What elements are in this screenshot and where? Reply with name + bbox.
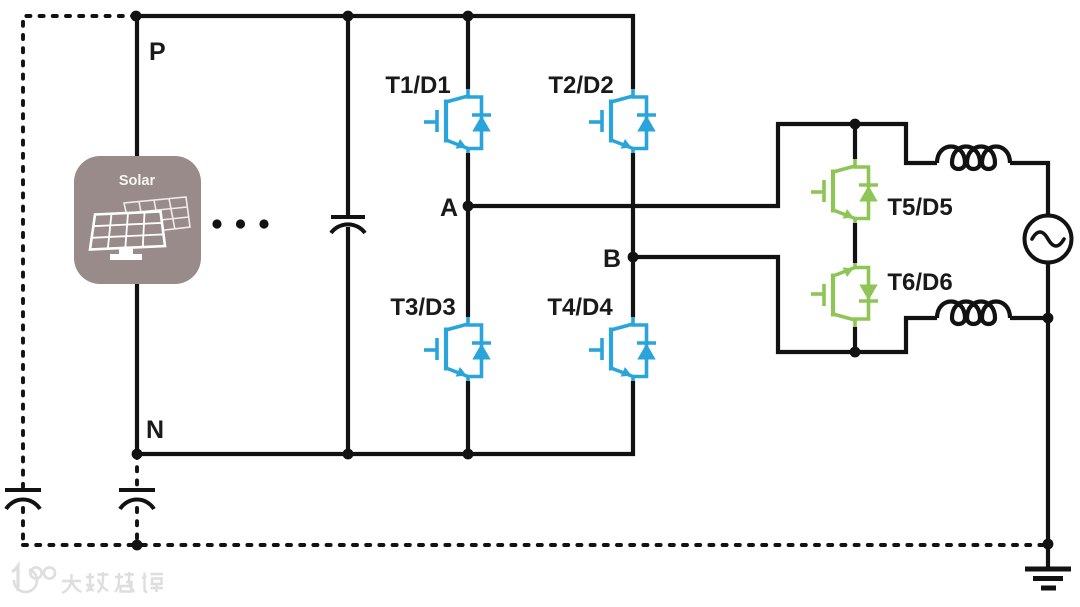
inductor L1 [937,147,1010,170]
ellipsis dots PV string [212,219,221,228]
dashed lead N node to parasitic capacitor [135,454,139,487]
watermark logo [12,566,55,592]
svg-text:N: N [146,416,164,444]
front panel [90,212,165,250]
svg-text:T3/D3: T3/D3 [390,294,455,321]
transistor T4 / diode D4 [589,317,656,381]
inductor L2 [937,302,1010,325]
wire: left bridge leg T1 to A to T3 [466,153,470,317]
junction bottom rail / T3 leg [463,449,474,460]
svg-text:Solar: Solar [119,173,156,189]
svg-text:T5/D5: T5/D5 [887,194,952,221]
svg-text:P: P [149,38,166,66]
watermark text 大数跨境 [62,572,163,593]
transistor T6 / diode D6 (mirrored) [811,263,878,327]
svg-text:T6/D6: T6/D6 [887,269,952,296]
junction top rail / T1 leg [463,11,474,22]
dashed segment below left parasitic capacitor [21,508,25,545]
wire: DC-link capacitor leg lower [346,227,350,454]
capacitor CY1 curved plate [6,500,40,509]
node A junction [463,201,474,212]
wire: DC-link capacitor leg upper [346,16,350,216]
wire: left bridge leg above T1 [466,16,470,89]
capacitor C1 DC-link flat plate [331,215,365,219]
junction freewheel bottom [850,347,861,358]
svg-text:T1/D1: T1/D1 [385,72,450,99]
wire: freewheel branch upper (to T5) [853,124,857,159]
svg-text:T2/D2: T2/D2 [548,72,613,99]
wire: node B to freewheel branch bottom [633,257,937,352]
junction N node [132,449,143,460]
wire: top DC rail P [136,16,633,89]
transistor T2 / diode D2 [589,89,656,153]
PV solar source icon [74,156,201,284]
capacitor CY1 (left parasitic, flat plate) [5,488,41,492]
AC source V1 [1025,216,1072,263]
svg-text:B: B [603,245,621,273]
capacitor CY2 curved plate [120,500,154,509]
stand [110,249,142,260]
junction freewheel top [850,119,861,130]
wire: freewheel branch lower (T6 to bottom) [853,327,857,352]
wire: node A to freewheel branch top [468,124,937,206]
wire: bottom DC rail N [137,381,633,454]
junction P node [131,11,142,22]
wire: freewheel branch middle (T5 to T6) [853,223,857,263]
svg-text:A: A [440,194,458,222]
junction AC / L2 [1043,313,1054,324]
wire: L2 to AC node [1010,316,1048,320]
dashed bottom ground return line [23,543,1048,547]
wire: left source rail (P to N through PV) [135,16,139,454]
transistor T3 / diode D3 [424,317,491,381]
junction dashed line / N capacitor [132,540,143,551]
capacitor C1 DC-link curved plate [331,224,365,233]
transistor T1 / diode D1 [424,89,491,153]
junction bottom rail / C1 [343,449,354,460]
junction dashed line / ground leg [1043,539,1054,550]
dashed segment below N parasitic capacitor [135,508,139,545]
junction top rail / C1 [343,11,354,22]
ground symbol [1025,569,1071,588]
wire: left bridge leg below T3 [466,381,470,454]
dashed ground-loop border (left + top) [23,16,136,487]
wire: L1 to AC source [1010,163,1048,216]
wire: AC source to ground leg [1046,263,1050,568]
capacitor CY2 (N-rail parasitic, flat plate) [119,488,155,492]
node B junction [628,252,639,263]
transistor T5 / diode D5 [811,159,878,223]
wire: right bridge leg T2 to B to T4 [631,153,635,317]
back panel [124,197,190,234]
svg-text:T4/D4: T4/D4 [547,294,613,321]
